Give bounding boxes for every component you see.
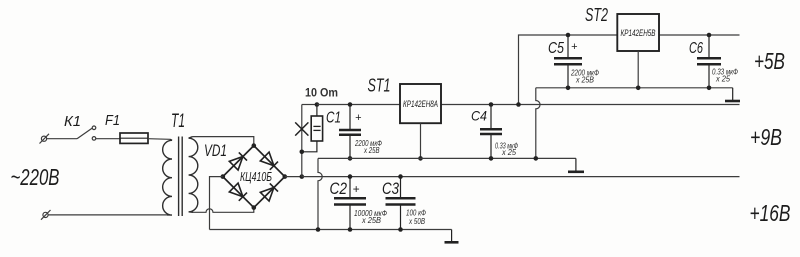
transformer T1 core	[179, 137, 183, 217]
diode bottom-left (points to bottom vertex)	[229, 183, 247, 201]
wire bridge right vertex to node	[285, 176, 302, 178]
capacitor C4	[480, 105, 502, 159]
diode top-left (points to top vertex)	[229, 152, 247, 170]
ground right	[725, 88, 740, 101]
svg-text:10 Om: 10 Om	[305, 88, 338, 100]
node C5 top	[566, 33, 571, 38]
node C2 bottom	[348, 227, 353, 232]
bridge rectifier VD1 diamond	[223, 146, 285, 208]
svg-text:С5: С5	[548, 40, 564, 57]
wire +9V rail right segment (ST1 output to +9V end)	[441, 104, 740, 106]
wire secondary top to bridge	[193, 137, 254, 146]
node bridge top vertex	[252, 143, 257, 148]
wire ST2 ground rail	[536, 87, 733, 89]
node C2 top	[348, 174, 353, 179]
ground middle	[568, 158, 584, 171]
node ST1 ground	[418, 156, 423, 161]
wire riser to ST2 rail	[519, 35, 740, 105]
svg-text:Т1: Т1	[171, 111, 185, 132]
input terminal bottom	[41, 210, 51, 220]
wire top corner to resistor lead	[302, 104, 317, 106]
svg-text:+16В: +16В	[750, 200, 791, 226]
wire raw DC rail (+16V)	[302, 176, 740, 178]
wire bridge left vertex to DC- riser	[210, 177, 223, 230]
wire bottom input to transformer	[48, 214, 167, 216]
capacitor C6	[697, 35, 721, 88]
node C5 bottom	[566, 86, 571, 91]
node C4 bottom	[489, 156, 494, 161]
svg-text:+: +	[355, 112, 362, 124]
wire common rail drop to DC- (hop over +16V rail)	[318, 158, 322, 229]
svg-text:х 25В: х 25В	[363, 146, 380, 155]
input terminal top	[40, 134, 50, 144]
node ST2 ground	[636, 86, 641, 91]
fuse F1	[120, 133, 148, 143]
wire X-link branch vertical	[301, 105, 303, 177]
transformer T1 primary winding	[163, 139, 172, 215]
svg-text:х 25: х 25	[715, 75, 730, 84]
wire ST1 ground lead	[420, 123, 422, 158]
svg-text:х 25: х 25	[501, 148, 516, 157]
regulator ST2	[617, 14, 659, 51]
capacitor C3	[386, 177, 416, 230]
resistor R1 10 Om	[302, 105, 323, 152]
wire common rail	[318, 157, 576, 159]
svg-text:КЦ410Б: КЦ410Б	[240, 169, 272, 184]
node C3 bottom	[398, 227, 403, 232]
node ST2 ground vertical at common rail	[534, 156, 539, 161]
node resistor top junction	[315, 102, 320, 107]
svg-text:F1: F1	[105, 112, 120, 129]
node raw DC+	[300, 174, 305, 179]
node bridge right vertex	[283, 174, 288, 179]
diode top-right (points to right vertex)	[260, 152, 278, 170]
svg-text:С3: С3	[382, 179, 399, 198]
svg-text:~220В: ~220В	[11, 164, 60, 190]
node C4 top	[489, 102, 494, 107]
node bridge left vertex	[221, 174, 226, 179]
svg-text:+5В: +5В	[754, 48, 785, 74]
svg-text:х 50В: х 50В	[408, 217, 425, 226]
node bridge bottom vertex	[252, 205, 257, 210]
svg-text:С4: С4	[471, 108, 487, 124]
node C1 top	[348, 102, 353, 107]
wire switch to fuse	[96, 138, 121, 140]
transformer T1 secondary winding	[189, 137, 198, 213]
wire bottom rail (DC-)	[210, 229, 452, 231]
switch K1	[77, 126, 96, 140]
node common to DC-	[316, 227, 321, 232]
wire secondary bottom to bridge (hop over DC- riser)	[193, 208, 254, 213]
ground bottom-left	[445, 230, 459, 243]
node riser at +9V rail	[516, 102, 521, 107]
X-link (jumper) mark	[295, 122, 308, 135]
wire ST2 ground lead	[637, 51, 639, 88]
svg-text:ST1: ST1	[368, 75, 391, 96]
wire fuse to transformer	[148, 138, 170, 141]
svg-text:С6: С6	[689, 40, 703, 57]
capacitor C2	[334, 177, 366, 230]
node C1 bottom	[348, 156, 353, 161]
svg-text:К1: К1	[64, 113, 81, 130]
svg-text:х 25В: х 25В	[575, 76, 594, 85]
wire ST2 ground vertical (hop over +9V rail)	[536, 88, 540, 159]
svg-text:+: +	[571, 41, 578, 53]
svg-text:С1: С1	[326, 110, 341, 127]
node resistor bottom junction	[300, 150, 305, 155]
node C3 top	[398, 174, 403, 179]
svg-text:VD1: VD1	[204, 141, 227, 160]
node C6 bottom	[707, 86, 712, 91]
wire input to switch	[47, 138, 78, 140]
capacitor C5	[554, 35, 582, 88]
capacitor C1	[339, 105, 361, 159]
svg-text:ST2: ST2	[585, 4, 608, 25]
svg-text:КР142ЕН8А: КР142ЕН8А	[403, 99, 438, 110]
svg-text:+9В: +9В	[750, 124, 782, 150]
wire +9V rail left segment (to ST1 input)	[317, 104, 400, 106]
diode bottom-right (points to right vertex)	[260, 183, 278, 201]
svg-text:+: +	[353, 182, 360, 196]
svg-text:КР142ЕН5В: КР142ЕН5В	[621, 28, 656, 39]
regulator ST1	[400, 84, 441, 123]
node C6 top	[707, 33, 712, 38]
svg-text:С2: С2	[330, 179, 348, 198]
svg-text:х 25В: х 25В	[361, 216, 382, 225]
